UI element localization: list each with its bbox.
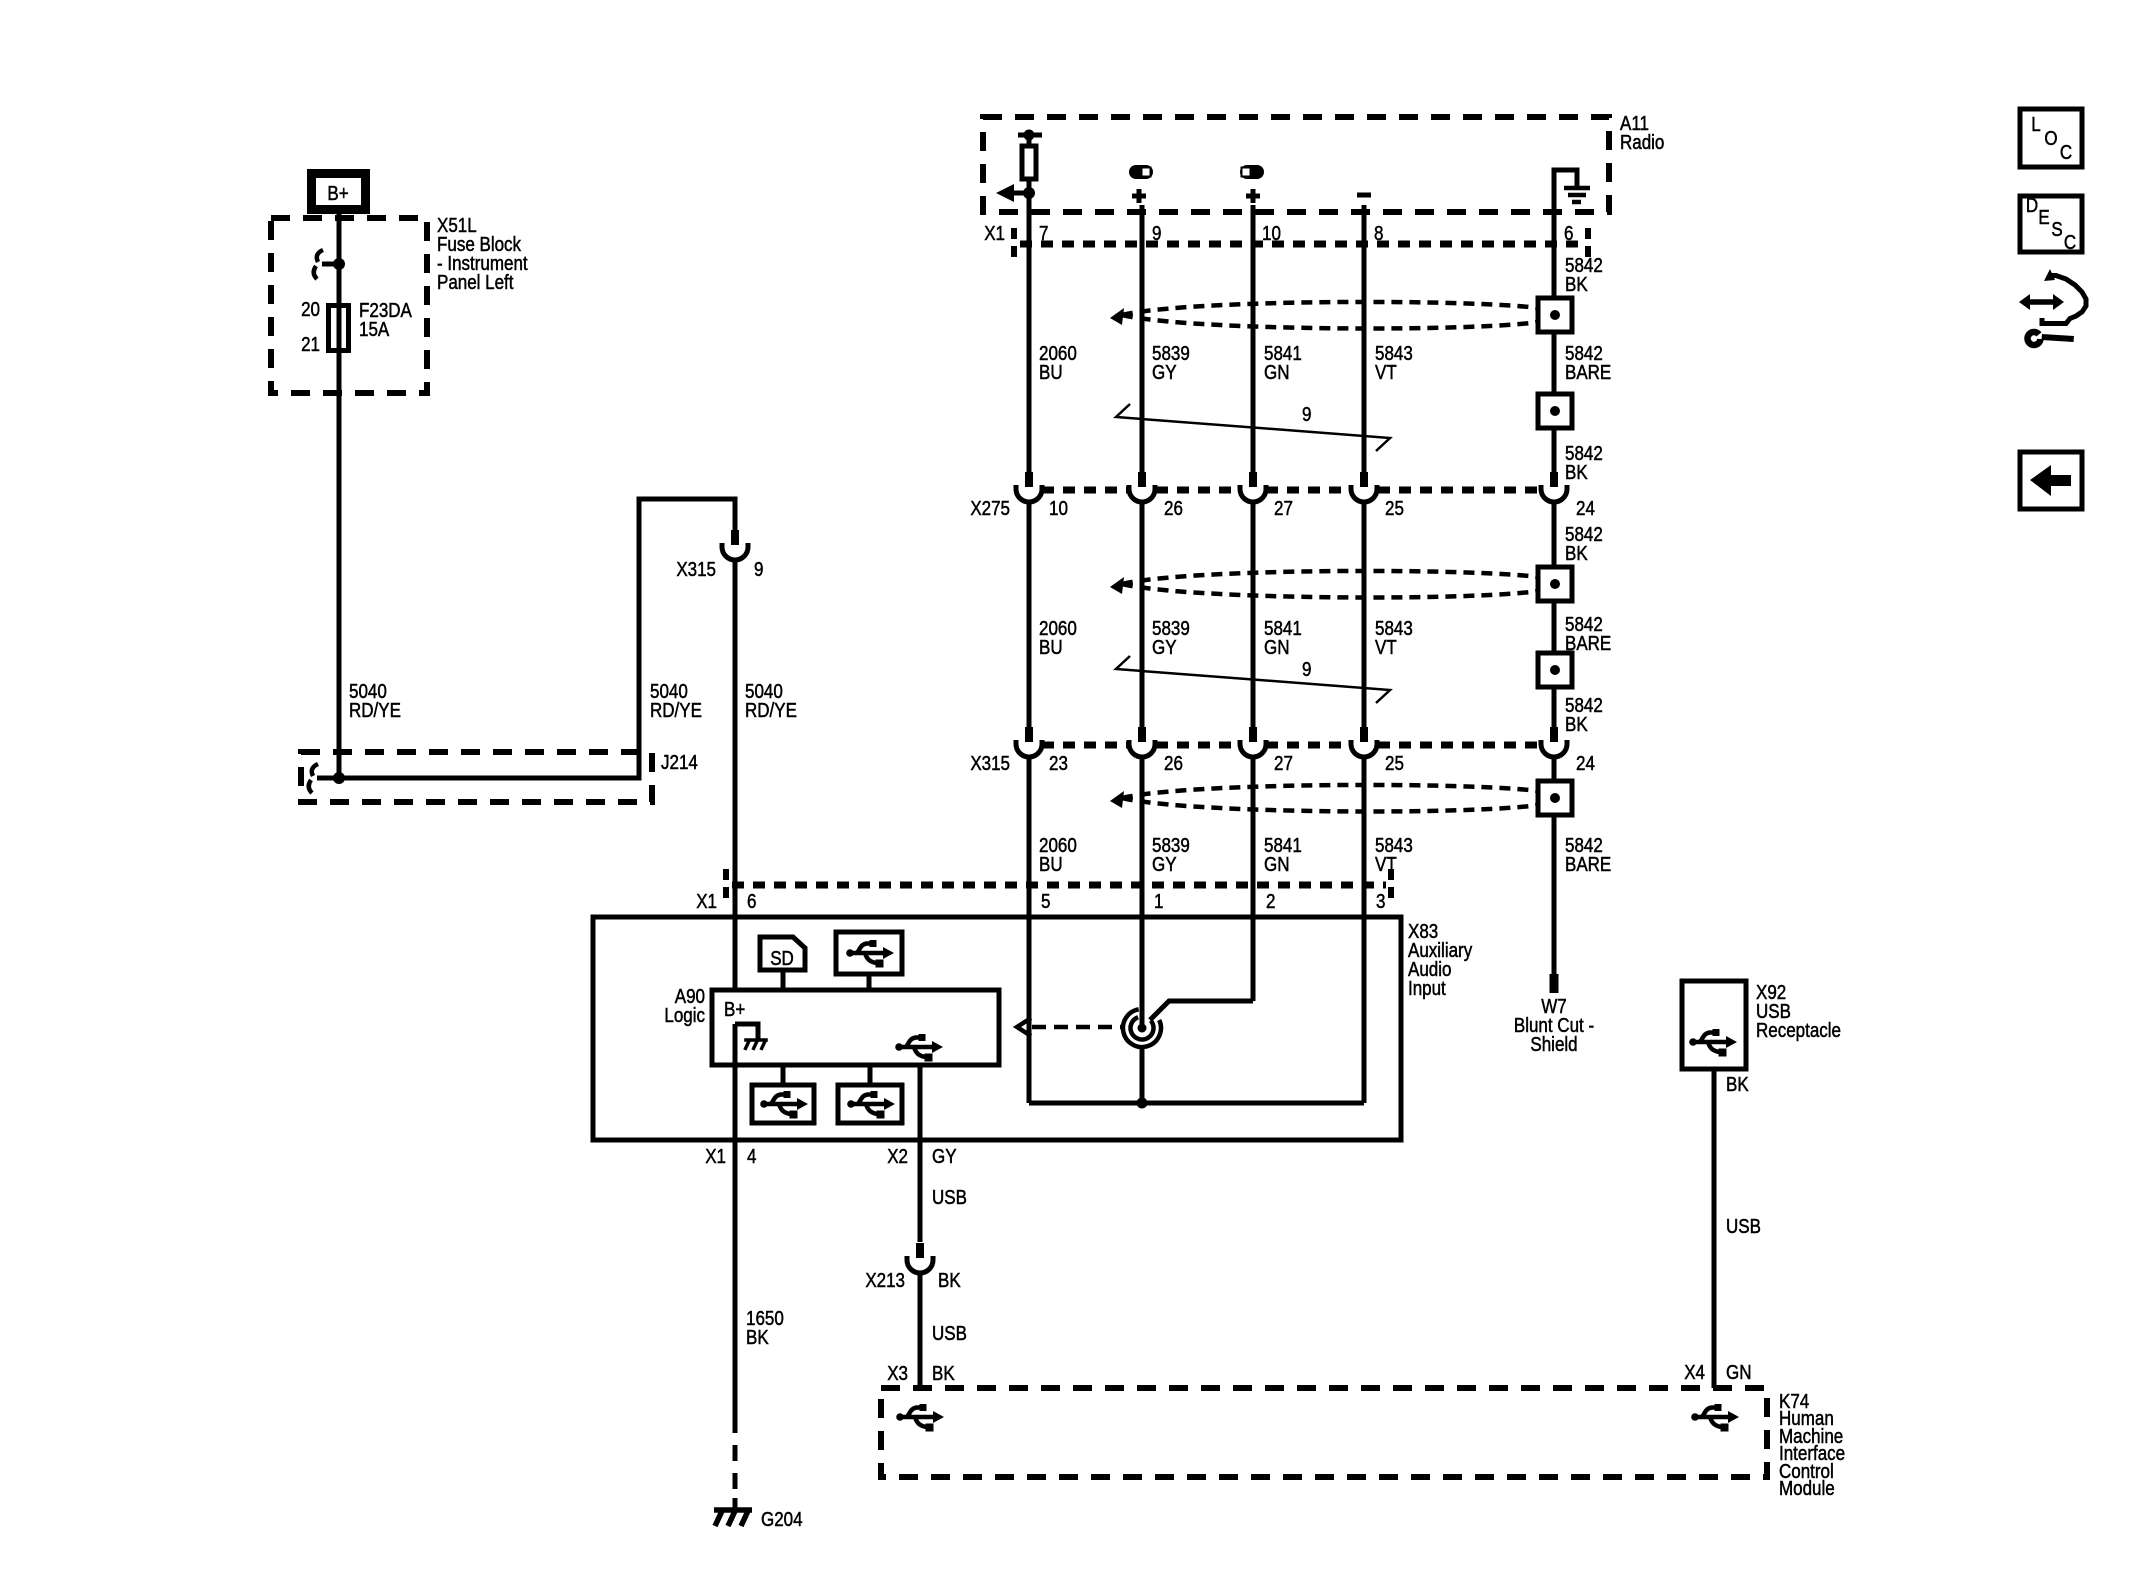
svg-text:E: E (2038, 206, 2049, 229)
wire J214 to X315 loop (334, 499, 735, 778)
svg-text:G204: G204 (761, 1508, 803, 1531)
X275 terminal pin 26 (1129, 472, 1155, 502)
minus terminal (pin 8) (1357, 193, 1371, 198)
shield dashed wire with arrow (1017, 1018, 1121, 1036)
svg-text:BU: BU (1039, 853, 1063, 876)
USB symbol in A90 (895, 1034, 943, 1062)
svg-text:26: 26 (1164, 497, 1183, 520)
svg-text:USB: USB (932, 1322, 967, 1345)
twisted count line 9 (section 2) (1116, 656, 1390, 703)
svg-text:3: 3 (1376, 890, 1385, 913)
connector row X275 (1042, 487, 1540, 494)
wire 5841 GN section 1 (1251, 205, 1256, 472)
svg-text:15A: 15A (359, 318, 390, 341)
svg-text:GY: GY (1152, 636, 1177, 659)
wire label 5040 RD/YE middle (650, 680, 702, 722)
wire 5839 GY section 1 (1140, 205, 1145, 472)
wire from A90 B+ down to X1-4 (733, 1024, 738, 1140)
svg-text:RD/YE: RD/YE (745, 699, 797, 722)
wire 2060 BU section 3 (1027, 757, 1032, 1103)
jack to pin 2 wire (1150, 1001, 1253, 1020)
wire 5839 GY section 3 (1140, 757, 1145, 1028)
svg-text:23: 23 (1049, 752, 1068, 775)
wire label 5841 GN (3) (1264, 834, 1302, 876)
X315 terminal pin 27 (1240, 727, 1266, 757)
fuse F23DA 15A (329, 306, 349, 351)
K74 HMI control module dashed box (881, 1388, 1767, 1477)
svg-text:GN: GN (1264, 853, 1289, 876)
svg-text:BK: BK (1565, 542, 1588, 565)
svg-text:BK: BK (1565, 273, 1588, 296)
diagnostic icon (2019, 269, 2086, 345)
wire label 2060 BU (3) (1039, 834, 1077, 876)
USB symbol in K74 right (1691, 1404, 1739, 1432)
svg-text:BK: BK (938, 1269, 961, 1292)
X275 terminal pin 24 (1541, 472, 1567, 502)
svg-text:C: C (2064, 231, 2076, 254)
USB port bottom left (752, 1065, 814, 1123)
W7 blunt cut shield end (1550, 974, 1559, 993)
svg-text:10: 10 (1049, 497, 1068, 520)
svg-text:B+: B+ (724, 998, 745, 1021)
svg-text:25: 25 (1385, 752, 1404, 775)
svg-text:X315: X315 (676, 558, 716, 581)
wire label 5839 GY (3) (1152, 834, 1190, 876)
wire X213 to K74 (918, 1273, 923, 1388)
wire 5841 GN section 2 (1251, 502, 1256, 727)
connector X315 pin 9 (722, 530, 748, 560)
wire 5842 shield section 3 (to W7) (1552, 757, 1557, 974)
svg-text:7: 7 (1039, 222, 1048, 245)
connector row X1 (X83) (726, 869, 1391, 901)
svg-text:24: 24 (1576, 752, 1595, 775)
antenna element in radio (996, 130, 1042, 203)
wire 5843 VT section 2 (1362, 502, 1367, 727)
svg-text:RD/YE: RD/YE (650, 699, 702, 722)
dashed wire to G204 (733, 1417, 738, 1507)
audio jack symbol (1123, 1009, 1161, 1047)
A90 internal ground stub (735, 1024, 768, 1050)
X315 9 labels (676, 558, 763, 581)
svg-text:X213: X213 (865, 1269, 905, 1292)
DESC icon (2020, 194, 2082, 254)
svg-text:9: 9 (1302, 658, 1311, 681)
A11 Radio label (1620, 112, 1664, 154)
wire label 5842 BARE (2) (1565, 613, 1611, 655)
wire label 2060 BU (1039, 342, 1077, 384)
radio internal ground (1554, 170, 1590, 212)
X83 auxiliary audio input box (593, 917, 1401, 1140)
connector X213 (907, 1243, 933, 1273)
svg-text:6: 6 (747, 890, 756, 913)
X3 BK labels (887, 1362, 955, 1385)
speaker symbol + (pin 9) (1129, 165, 1153, 203)
wire label 5841 GN (2) (1264, 617, 1302, 659)
svg-text:SD: SD (770, 947, 794, 970)
shield splice box 4 (1538, 653, 1572, 687)
svg-text:X315: X315 (970, 752, 1010, 775)
shield splice box 5 (1538, 781, 1572, 815)
wire 5040 from B+ to J214 (337, 214, 342, 778)
LOC icon (2020, 109, 2082, 167)
svg-text:27: 27 (1274, 497, 1293, 520)
SD card reader (760, 937, 805, 990)
splice J214 dashed box (301, 752, 652, 802)
svg-text:GN: GN (1726, 1361, 1751, 1384)
svg-text:BK: BK (1726, 1073, 1749, 1096)
svg-text:Panel Left: Panel Left (437, 271, 514, 294)
svg-text:BK: BK (1565, 461, 1588, 484)
svg-text:BU: BU (1039, 361, 1063, 384)
wire 5839 GY section 2 (1140, 502, 1145, 727)
X213 BK labels (865, 1269, 961, 1292)
wire label 2060 BU (2) (1039, 617, 1077, 659)
wire 5841 GN section 3 (1251, 757, 1256, 1001)
power symbol B+ (312, 174, 366, 210)
connector row X315 (1042, 742, 1540, 749)
svg-text:BK: BK (746, 1326, 769, 1349)
W7 label (1514, 995, 1594, 1056)
svg-text:10: 10 (1262, 222, 1281, 245)
svg-text:X1: X1 (984, 222, 1005, 245)
wire 5843 VT section 1 (1362, 205, 1367, 472)
svg-text:USB: USB (932, 1186, 967, 1209)
speaker symbol + (pin 10) (1240, 165, 1264, 203)
svg-text:9: 9 (1152, 222, 1161, 245)
X275 terminal pin 10 (1016, 472, 1042, 502)
shield splice box 1 (1538, 298, 1572, 332)
svg-text:Shield: Shield (1530, 1033, 1577, 1056)
svg-text:20: 20 (301, 298, 320, 321)
wire label 5842 BK (2) (1565, 442, 1603, 484)
svg-text:5: 5 (1041, 890, 1050, 913)
svg-text:USB: USB (1726, 1215, 1761, 1238)
X1 4 labels (705, 1145, 756, 1168)
jack lower wire (1140, 1047, 1145, 1103)
A90 logic box (712, 990, 999, 1065)
X315 terminal pin 25 (1351, 727, 1377, 757)
X2 GY labels (887, 1145, 956, 1168)
connector row X1 (radio) (1014, 228, 1588, 262)
svg-text:26: 26 (1164, 752, 1183, 775)
ground G204 (714, 1498, 752, 1526)
svg-text:BK: BK (1565, 713, 1588, 736)
junction dot (1137, 1098, 1148, 1109)
svg-text:Logic: Logic (664, 1004, 705, 1027)
wire 2060 BU section 2 (1027, 502, 1032, 727)
wire label 1650 BK (746, 1307, 784, 1349)
svg-text:6: 6 (1564, 222, 1573, 245)
wire 5843 VT section 3 (1362, 757, 1367, 1103)
wire 5842 shield section 1 (1552, 212, 1557, 472)
wire B+ into A90 (733, 917, 738, 991)
svg-text:RD/YE: RD/YE (349, 699, 401, 722)
twisted pair ellipse 3 (1110, 785, 1538, 812)
svg-text:25: 25 (1385, 497, 1404, 520)
svg-text:VT: VT (1375, 636, 1397, 659)
fuse block X51L dashed box (271, 218, 427, 393)
X315 terminal pin 26 (1129, 727, 1155, 757)
wire label 5040 RD/YE right (745, 680, 797, 722)
svg-text:GY: GY (932, 1145, 957, 1168)
back arrow icon (2020, 452, 2082, 509)
wire label 5843 VT (3) (1375, 834, 1413, 876)
svg-text:X1: X1 (696, 890, 717, 913)
wire label 5842 BK (3) (1565, 523, 1603, 565)
wire label 5841 GN (1264, 342, 1302, 384)
svg-text:L: L (2031, 113, 2040, 136)
fuse label F23DA 15A (359, 299, 412, 341)
USB port top (836, 932, 902, 990)
X83 label (1408, 920, 1473, 1000)
svg-text:GY: GY (1152, 853, 1177, 876)
USB symbol in K74 left (896, 1404, 944, 1432)
twisted pair ellipse 1 (1110, 302, 1538, 329)
J214 splice symbol (309, 764, 334, 793)
svg-text:Radio: Radio (1620, 131, 1664, 154)
svg-text:BARE: BARE (1565, 853, 1611, 876)
X315 terminal pin 24 (1541, 727, 1567, 757)
bottom connecting wire pin5 to pin3 (1029, 1101, 1364, 1106)
K74 label (1779, 1390, 1845, 1500)
twisted count line 9 (section 1) (1116, 403, 1390, 451)
wire 1650 BK (733, 1140, 738, 1417)
svg-text:J214: J214 (661, 751, 698, 774)
shield splice box 2 (1538, 394, 1572, 428)
X92 label (1756, 981, 1841, 1042)
svg-text:D: D (2026, 194, 2038, 217)
svg-text:VT: VT (1375, 361, 1397, 384)
wire label 5040 RD/YE left (349, 680, 401, 722)
svg-text:B+: B+ (327, 182, 348, 205)
shield splice box 3 (1538, 567, 1572, 601)
svg-text:GY: GY (1152, 361, 1177, 384)
J214 junction dot (333, 772, 345, 784)
X4 GN labels (1684, 1361, 1751, 1384)
svg-text:Input: Input (1408, 977, 1447, 1000)
wire 2060 BU section 1 (1027, 193, 1032, 472)
svg-text:X1: X1 (705, 1145, 726, 1168)
wire X2 USB out of A90 (918, 1065, 923, 1242)
wire label 5842 BARE (1565, 342, 1611, 384)
splice connection in fuse block (314, 250, 345, 279)
X275 terminal pin 27 (1240, 472, 1266, 502)
wire label 5843 VT (1375, 342, 1413, 384)
wire X92 to K74 (1712, 1069, 1717, 1388)
svg-text:GN: GN (1264, 636, 1289, 659)
A90 Logic label (664, 985, 705, 1027)
svg-text:4: 4 (747, 1145, 756, 1168)
wire label 5843 VT (2) (1375, 617, 1413, 659)
svg-text:C: C (2060, 141, 2072, 164)
svg-text:8: 8 (1374, 222, 1383, 245)
wire label 5842 BARE (3) (1565, 834, 1611, 876)
svg-text:9: 9 (1302, 403, 1311, 426)
wire label 5842 BK (1565, 254, 1603, 296)
svg-text:24: 24 (1576, 497, 1595, 520)
X315 terminal pin 23 (1016, 727, 1042, 757)
USB port bottom right (838, 1065, 902, 1123)
svg-text:S: S (2051, 218, 2062, 241)
twisted pair ellipse 2 (1110, 571, 1538, 598)
svg-text:BARE: BARE (1565, 361, 1611, 384)
svg-text:27: 27 (1274, 752, 1293, 775)
radio A11 dashed box (983, 117, 1609, 212)
X92 USB receptacle box (1682, 981, 1746, 1069)
svg-text:BK: BK (932, 1362, 955, 1385)
svg-text:9: 9 (754, 558, 763, 581)
svg-text:X275: X275 (970, 497, 1010, 520)
wire 5842 shield section 2 (1552, 502, 1557, 727)
svg-text:O: O (2044, 127, 2057, 150)
svg-text:X3: X3 (887, 1362, 908, 1385)
svg-text:BU: BU (1039, 636, 1063, 659)
svg-text:Module: Module (1779, 1477, 1835, 1500)
svg-text:X2: X2 (887, 1145, 908, 1168)
svg-text:X4: X4 (1684, 1361, 1705, 1384)
wire label 5842 BK (4) (1565, 694, 1603, 736)
wire label 5839 GY (1152, 342, 1190, 384)
svg-text:1: 1 (1154, 890, 1163, 913)
wire 5040 RD/YE down to X83 (733, 560, 738, 917)
svg-text:21: 21 (301, 333, 320, 356)
svg-text:2: 2 (1266, 890, 1275, 913)
svg-text:GN: GN (1264, 361, 1289, 384)
X275 terminal pin 25 (1351, 472, 1377, 502)
svg-text:Receptacle: Receptacle (1756, 1019, 1841, 1042)
wire label 5839 GY (2) (1152, 617, 1190, 659)
X51L label (437, 214, 528, 294)
